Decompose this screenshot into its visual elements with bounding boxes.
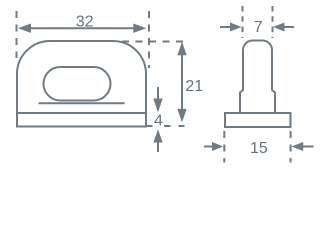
svg-text:7: 7: [254, 19, 263, 36]
svg-text:21: 21: [185, 78, 203, 95]
svg-text:32: 32: [76, 14, 94, 31]
svg-text:15: 15: [250, 140, 268, 157]
svg-text:4: 4: [154, 112, 163, 129]
